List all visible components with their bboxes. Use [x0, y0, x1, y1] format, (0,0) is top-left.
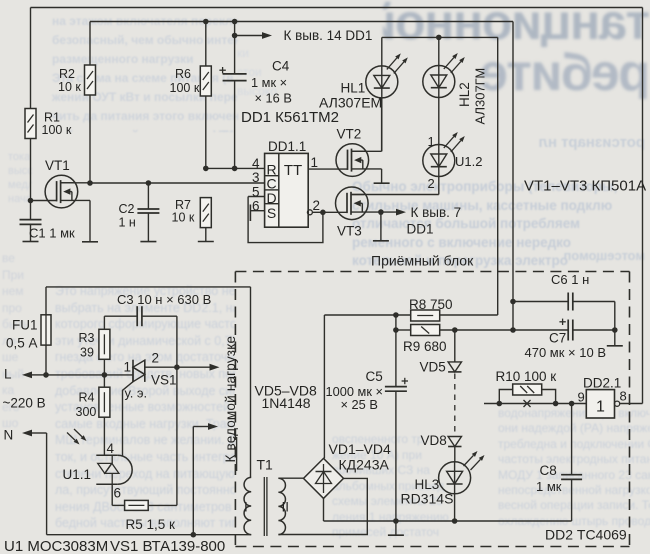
svg-text:VD1–VD4: VD1–VD4	[329, 441, 391, 457]
svg-text:9: 9	[578, 389, 585, 404]
svg-text:II: II	[282, 500, 290, 515]
svg-text:VD8: VD8	[421, 433, 447, 448]
svg-text:VS1: VS1	[151, 373, 177, 388]
svg-text:× 16 В: × 16 В	[255, 91, 292, 106]
svg-text:C2: C2	[119, 202, 135, 216]
svg-text:R8 750: R8 750	[409, 297, 453, 312]
svg-text:C7: C7	[549, 331, 566, 346]
svg-text:C1 1 мк: C1 1 мк	[29, 226, 75, 241]
svg-text:1N4148: 1N4148	[262, 395, 311, 411]
svg-text:6: 6	[114, 486, 122, 501]
svg-text:5: 5	[252, 184, 260, 199]
svg-text:R9 680: R9 680	[403, 339, 447, 354]
svg-text:D: D	[267, 190, 277, 206]
svg-text:1: 1	[428, 134, 435, 149]
svg-text:4: 4	[107, 441, 115, 456]
svg-text:RD314S: RD314S	[401, 490, 454, 506]
svg-text:С6 1 н: С6 1 н	[551, 272, 589, 287]
svg-text:0,5 А: 0,5 А	[6, 336, 38, 351]
svg-text:С3 10 н × 630 В: С3 10 н × 630 В	[117, 292, 211, 307]
svg-text:10 к: 10 к	[172, 211, 195, 225]
svg-text:C5: C5	[366, 369, 383, 384]
svg-text:FU1: FU1	[12, 318, 38, 333]
svg-text:DD1.1: DD1.1	[268, 139, 306, 154]
svg-text:АЛ307ЕМ: АЛ307ЕМ	[319, 94, 382, 110]
svg-text:300: 300	[76, 405, 97, 419]
svg-text:ТТ: ТТ	[284, 162, 302, 179]
svg-text:10 к: 10 к	[58, 80, 81, 94]
svg-text:2: 2	[428, 176, 435, 191]
svg-text:HL2: HL2	[457, 82, 472, 107]
svg-text:К ведомой нагрузке: К ведомой нагрузке	[223, 336, 238, 463]
svg-text:N: N	[4, 428, 14, 443]
svg-text:VT3: VT3	[337, 224, 362, 239]
svg-text:100 к: 100 к	[42, 123, 72, 137]
svg-text:I: I	[244, 500, 248, 515]
svg-text:470 мк × 10 В: 470 мк × 10 В	[525, 345, 607, 360]
svg-text:1 мк ×: 1 мк ×	[251, 75, 287, 90]
svg-text:S: S	[267, 205, 276, 221]
svg-text:К выв. 14 DD1: К выв. 14 DD1	[284, 28, 373, 43]
svg-text:39: 39	[80, 346, 94, 360]
svg-text:6: 6	[252, 199, 260, 214]
svg-text:R4: R4	[79, 391, 95, 405]
svg-text:C4: C4	[272, 59, 290, 74]
svg-text:1: 1	[311, 155, 319, 170]
svg-text:2: 2	[152, 351, 160, 366]
svg-text:4: 4	[252, 156, 260, 171]
svg-text:R6: R6	[175, 67, 191, 81]
svg-text:1: 1	[596, 399, 605, 416]
svg-text:VT2: VT2	[337, 127, 362, 142]
svg-text:R3: R3	[79, 331, 95, 345]
svg-text:VS1 ВТА139-800: VS1 ВТА139-800	[110, 538, 225, 554]
svg-text:DD2 ТС4069: DD2 ТС4069	[545, 526, 627, 542]
svg-text:C8: C8	[540, 463, 557, 478]
svg-text:КД243А: КД243А	[339, 456, 390, 472]
svg-text:R2: R2	[59, 67, 75, 81]
svg-text:8: 8	[620, 388, 627, 403]
svg-text:DD1: DD1	[407, 222, 434, 237]
svg-text:U1 МОС3083М: U1 МОС3083М	[4, 538, 108, 554]
svg-text:2: 2	[313, 198, 321, 213]
svg-text:у. э.: у. э.	[125, 386, 148, 401]
svg-text:VD5: VD5	[420, 360, 446, 375]
svg-text:× 25 В: × 25 В	[341, 397, 378, 412]
svg-text:Приёмный блок: Приёмный блок	[371, 253, 474, 269]
svg-text:U1.2: U1.2	[455, 154, 482, 169]
svg-text:VT1: VT1	[45, 158, 70, 173]
svg-text:АЛ307ГМ: АЛ307ГМ	[473, 68, 488, 125]
svg-text:HL1: HL1	[341, 81, 366, 96]
svg-text:К выв. 7: К выв. 7	[411, 205, 462, 220]
svg-text:1: 1	[124, 360, 132, 375]
svg-text:1 мк: 1 мк	[536, 479, 562, 494]
svg-text:DD2.1: DD2.1	[583, 375, 621, 390]
svg-text:U1.1: U1.1	[63, 467, 92, 482]
svg-text:1 н: 1 н	[119, 216, 136, 230]
svg-text:DD1 К561ТМ2: DD1 К561ТМ2	[241, 109, 339, 126]
svg-text:R10 100 к: R10 100 к	[496, 369, 557, 384]
svg-text:VT1–VT3 КП501А: VT1–VT3 КП501А	[524, 178, 646, 195]
svg-text:100 к: 100 к	[170, 81, 200, 95]
svg-text:Т1: Т1	[257, 457, 274, 473]
svg-text:L: L	[4, 367, 12, 382]
svg-text:3: 3	[252, 170, 260, 185]
svg-text:~220 В: ~220 В	[3, 396, 46, 411]
svg-text:R5 1,5 к: R5 1,5 к	[126, 517, 176, 532]
